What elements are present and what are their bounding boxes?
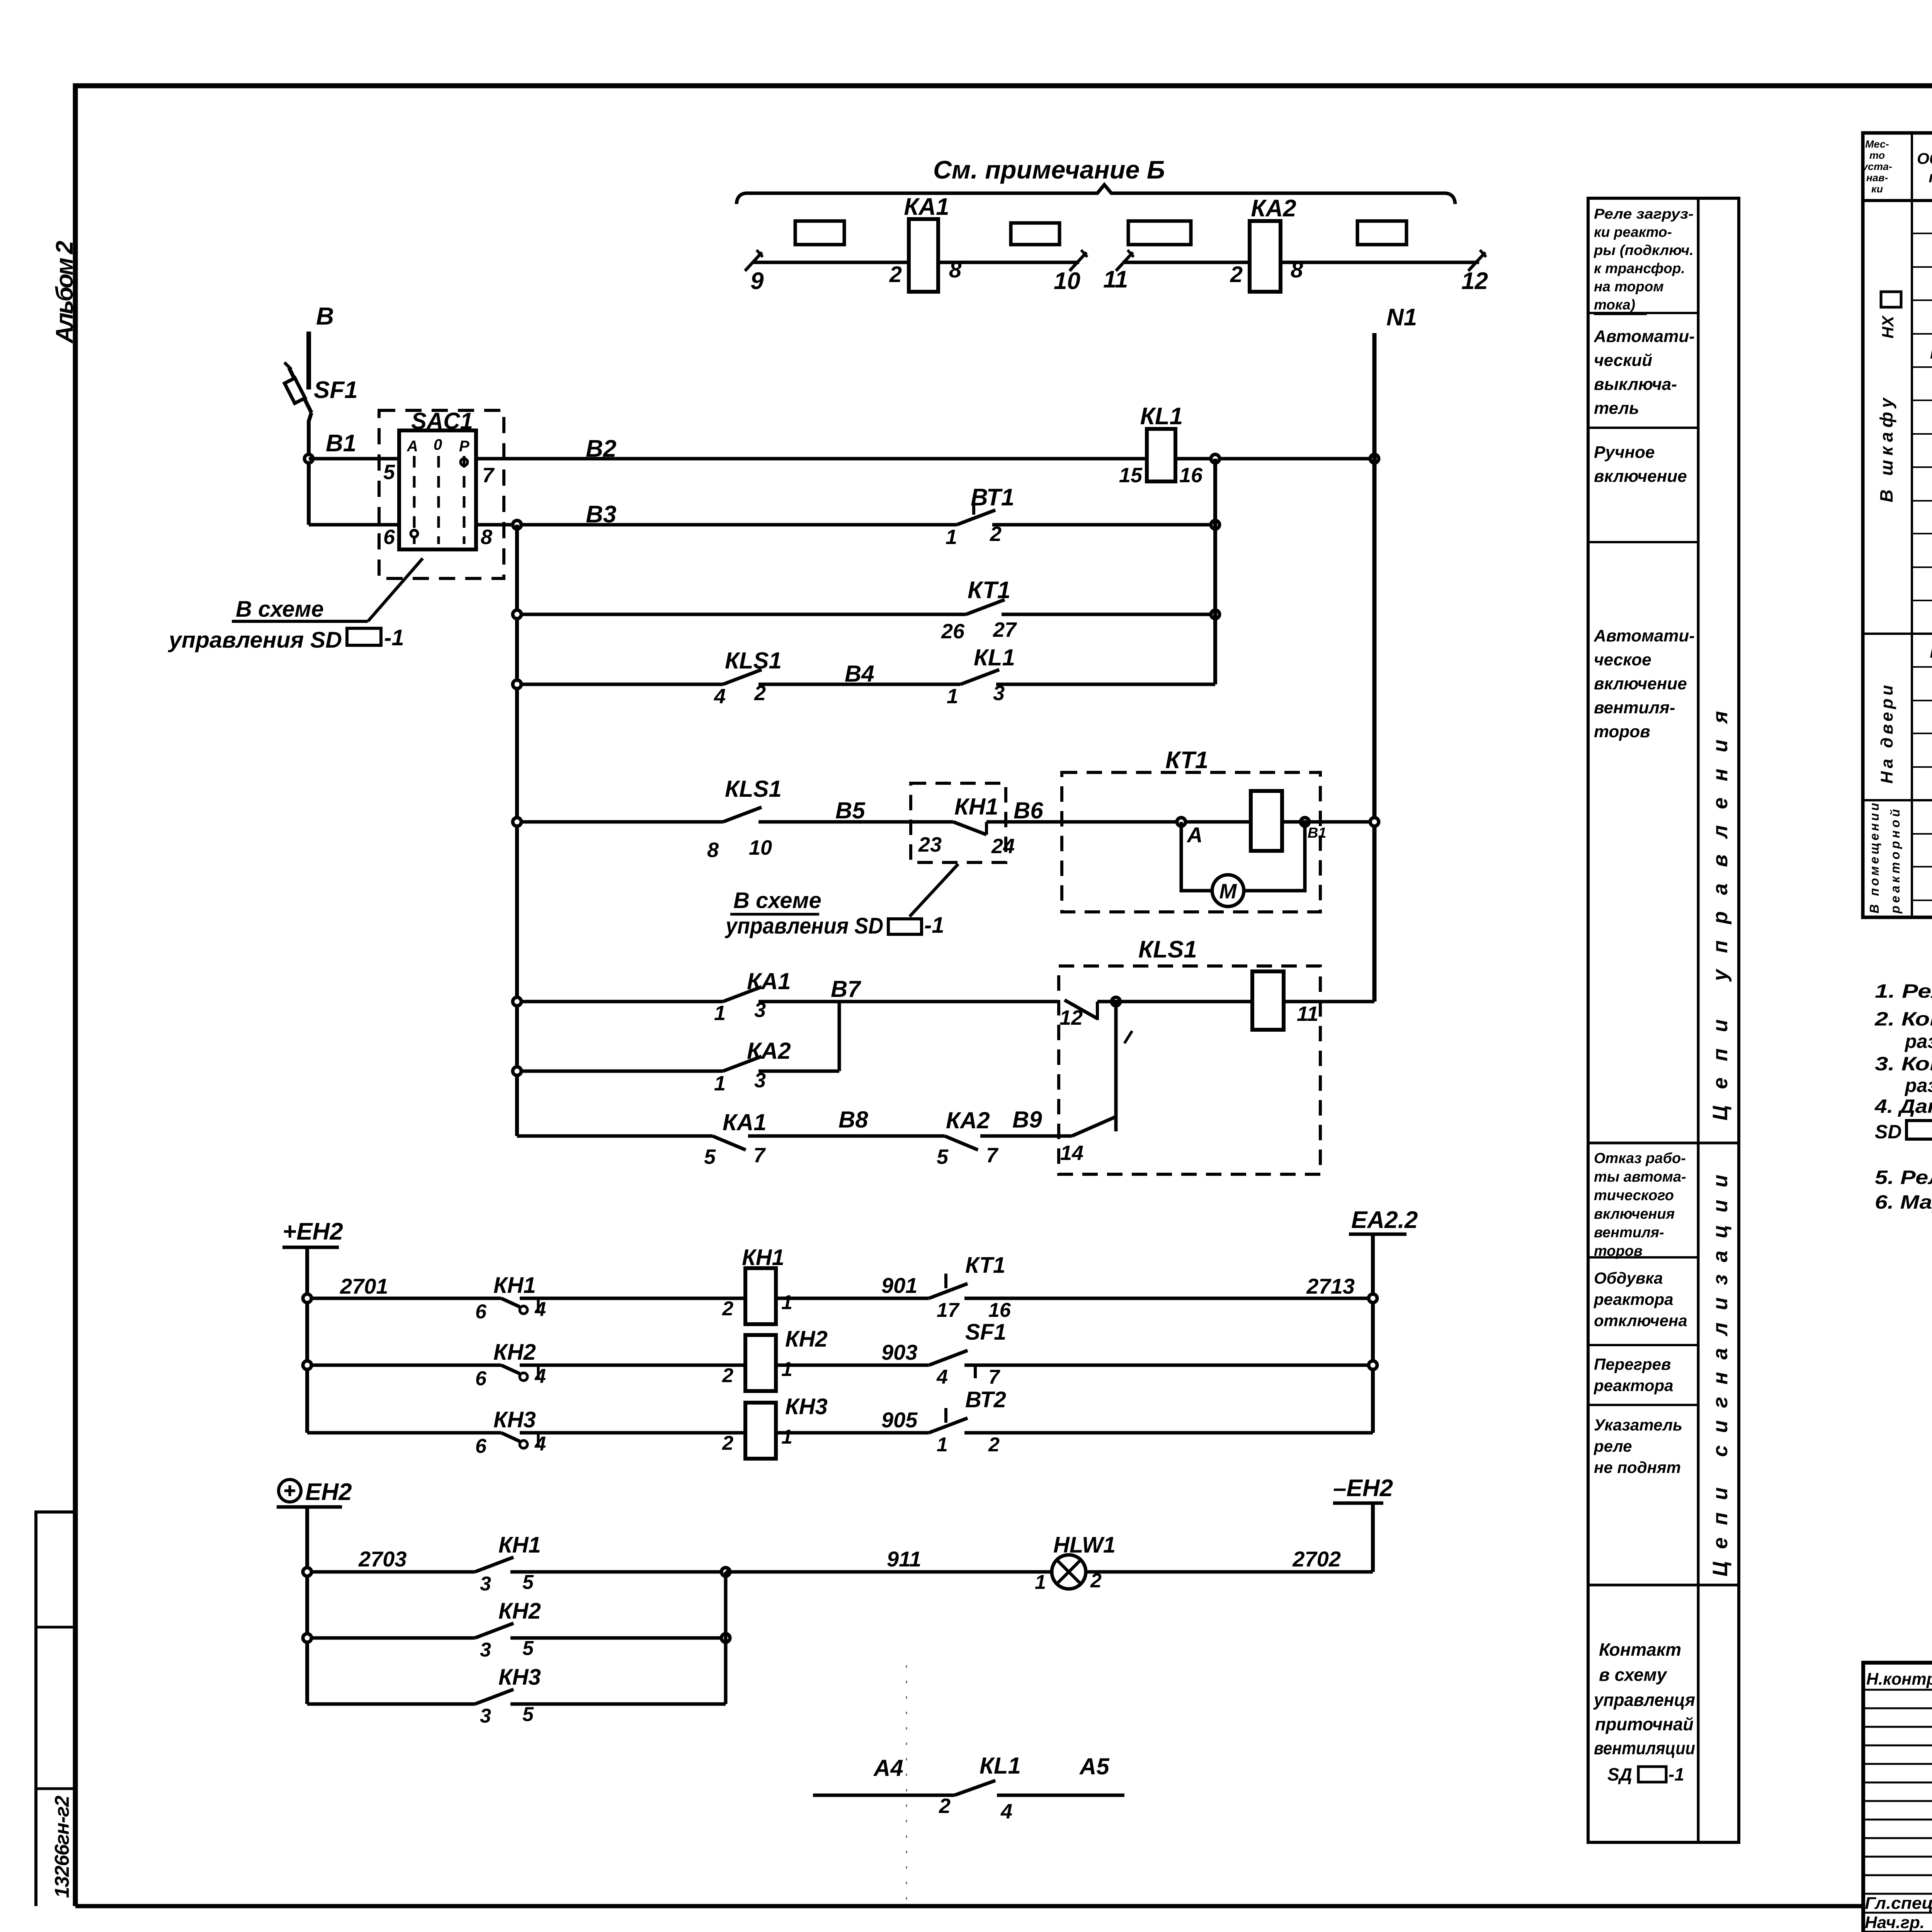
svg-text:В схеме: В схеме — [236, 597, 324, 622]
svg-text:КН1: КН1 — [493, 1273, 536, 1298]
svg-text:SD: SD — [1875, 1121, 1901, 1143]
underline in relay load cell — [1594, 313, 1647, 315]
svg-text:КLS1: КLS1 — [725, 648, 782, 673]
svg-text:тического: тического — [1594, 1187, 1674, 1204]
SAC1 position P — [459, 438, 469, 544]
svg-text:Контакт: Контакт — [1599, 1639, 1681, 1660]
svg-text:905: 905 — [881, 1408, 918, 1432]
svg-text:включение: включение — [1594, 467, 1687, 486]
node rung5 left — [513, 818, 521, 826]
svg-text:1: 1 — [714, 1002, 726, 1025]
CT circuit 1 wire 9-10 — [752, 261, 1079, 264]
svg-text:по схеме: по схеме — [1929, 169, 1932, 186]
title block outline — [1863, 1663, 1932, 1932]
contact KH2 3-5 — [307, 1599, 726, 1661]
svg-text:3. Контакты датчика ВТ2 должны: 3. Контакты датчика ВТ2 должны замыкатьс… — [1875, 1053, 1932, 1075]
svg-text:Ручное: Ручное — [1594, 443, 1655, 462]
svg-text:Цепи управления: Цепи управления — [1709, 711, 1732, 1121]
contact KLS1 8-10 — [517, 776, 782, 862]
svg-text:9: 9 — [750, 268, 764, 294]
bus -EH2 — [1333, 1475, 1393, 1572]
svg-text:4: 4 — [534, 1365, 546, 1388]
svg-text:Р: Р — [459, 438, 469, 455]
SAC1 position A — [406, 438, 418, 544]
svg-text:А5: А5 — [1079, 1753, 1110, 1779]
note brace См. примечание Б — [736, 155, 1455, 204]
SAC1 inner box — [399, 430, 476, 549]
svg-text:1: 1 — [714, 1072, 726, 1095]
svg-text:отключена: отключена — [1594, 1311, 1687, 1330]
circuit breaker SF1 — [284, 362, 358, 525]
svg-text:не поднят: не поднят — [1594, 1458, 1681, 1476]
svg-text:5: 5 — [522, 1571, 534, 1594]
svg-text:4: 4 — [936, 1366, 948, 1388]
terminal 9 — [745, 250, 764, 294]
label auto breaker cell — [1594, 327, 1695, 418]
svg-text:КТ1: КТ1 — [965, 1253, 1005, 1278]
node B1 — [304, 430, 399, 463]
wire B5 — [759, 798, 953, 823]
note 4 second line with SD boxes — [1875, 1121, 1932, 1143]
signal wire — [307, 1364, 501, 1367]
svg-text:2701: 2701 — [340, 1274, 388, 1298]
node B3 junction — [513, 520, 521, 529]
node rung3 right — [1211, 610, 1219, 619]
svg-text:2703: 2703 — [358, 1547, 407, 1571]
svg-text:5: 5 — [522, 1703, 534, 1726]
svg-text:НХ: НХ — [1879, 315, 1897, 338]
svg-text:ческий: ческий — [1594, 351, 1652, 370]
svg-text:SF1: SF1 — [965, 1320, 1006, 1345]
svg-text:10: 10 — [749, 836, 772, 859]
header Место установки — [1861, 138, 1892, 195]
svg-text:5: 5 — [383, 461, 395, 484]
svg-text:включения: включения — [1594, 1206, 1675, 1222]
svg-text:1: 1 — [781, 1291, 793, 1314]
svg-text:В1: В1 — [1308, 825, 1327, 841]
wire B4 — [759, 661, 961, 687]
contact KA2 5-7 — [937, 1107, 1072, 1168]
svg-text:КН2: КН2 — [493, 1340, 536, 1365]
svg-text:2: 2 — [722, 1432, 733, 1454]
row relay KA1 KA2 — [1930, 342, 1932, 363]
bus +EH2 lamp circuit — [277, 1479, 352, 1704]
svg-text:2: 2 — [722, 1364, 733, 1387]
svg-text:5: 5 — [704, 1145, 716, 1168]
contact KA1 5-7 — [517, 1109, 945, 1168]
node rung2 right — [1211, 520, 1219, 529]
svg-text:6: 6 — [475, 1301, 487, 1323]
svg-text:1: 1 — [947, 685, 958, 708]
svg-text:торов: торов — [1594, 1243, 1643, 1259]
node rung7 left — [513, 1067, 521, 1075]
notes block — [1874, 980, 1932, 1117]
node rung6 left — [513, 997, 521, 1006]
svg-text:6: 6 — [475, 1367, 487, 1390]
indicator relay coil КН3 2-1 — [722, 1394, 929, 1459]
label auto fan start cell — [1594, 626, 1695, 741]
function column table — [1588, 198, 1739, 1842]
svg-text:8: 8 — [707, 838, 719, 862]
CT winding box b — [1011, 223, 1060, 245]
motor M of KT1 — [1181, 822, 1305, 906]
svg-text:КН1: КН1 — [954, 794, 998, 820]
svg-text:4: 4 — [1000, 1800, 1012, 1823]
svg-text:КА2: КА2 — [946, 1107, 990, 1133]
svg-text:КН2: КН2 — [785, 1327, 828, 1352]
svg-text:15: 15 — [1119, 464, 1143, 487]
leader to KH1 note — [724, 864, 958, 939]
svg-text:КL1: КL1 — [974, 645, 1015, 670]
svg-text:размыкаться при t°=+30°С.: размыкаться при t°=+30°С. — [1904, 1031, 1932, 1052]
KT1 motor coil — [1251, 791, 1282, 851]
svg-text:8: 8 — [949, 257, 962, 282]
svg-text:КL1: КL1 — [1140, 403, 1183, 430]
svg-text:–ЕН2: –ЕН2 — [1333, 1475, 1393, 1502]
svg-text:2: 2 — [939, 1794, 951, 1818]
fold mark dashed — [906, 1665, 907, 1901]
svg-text:ты автома-: ты автома- — [1594, 1169, 1686, 1185]
svg-text:КА2: КА2 — [1251, 195, 1296, 222]
svg-text:выключа-: выключа- — [1594, 375, 1677, 394]
SAC1 position 0 — [434, 436, 442, 544]
contact KA1 1-3 — [517, 968, 791, 1025]
svg-text:N1: N1 — [1386, 304, 1417, 331]
svg-text:Мес-: Мес- — [1865, 138, 1889, 150]
svg-text:-1: -1 — [384, 625, 404, 650]
wire B3 row — [309, 501, 957, 528]
terminal 10 — [1054, 250, 1087, 294]
svg-text:А: А — [406, 438, 418, 455]
svg-text:реактора: реактора — [1594, 1290, 1673, 1308]
wire B6 — [986, 798, 1062, 823]
svg-text:7: 7 — [988, 1366, 1000, 1388]
indicator relay coil КН2 2-1 — [722, 1327, 929, 1391]
label auto fail cell — [1594, 1150, 1686, 1259]
svg-text:КА1: КА1 — [904, 194, 949, 220]
svg-text:к трансфор.: к трансфор. — [1594, 260, 1685, 276]
svg-text:ЕН2: ЕН2 — [305, 1479, 352, 1505]
CT circuit 2 wire 11-12 — [1122, 261, 1479, 264]
svg-text:Автомати-: Автомати- — [1594, 327, 1695, 346]
svg-text:ВТ1: ВТ1 — [971, 484, 1014, 511]
svg-text:приточнай: приточнай — [1595, 1714, 1694, 1734]
node s1 left — [303, 1294, 311, 1303]
svg-text:М: М — [1219, 880, 1237, 903]
section label НХ — [1879, 292, 1901, 338]
svg-text:реле: реле — [1594, 1437, 1632, 1455]
svg-text:7: 7 — [986, 1144, 999, 1167]
label relay load cell — [1594, 206, 1694, 313]
leader to SAC1 note — [168, 558, 423, 653]
stamp row Chert.kon — [1864, 1932, 1932, 1932]
svg-text:3: 3 — [480, 1705, 491, 1727]
svg-text:0: 0 — [434, 436, 442, 453]
selector switch SAC1 dashed box — [379, 408, 504, 578]
svg-text:24: 24 — [991, 835, 1015, 858]
lamp HLW1 — [1035, 1532, 1373, 1594]
svg-text:В9: В9 — [1012, 1107, 1042, 1133]
svg-text:Цепи сигнализации: Цепи сигнализации — [1709, 1175, 1732, 1577]
lamp branch vertical — [724, 1572, 728, 1704]
svg-text:Перегрев: Перегрев — [1594, 1355, 1671, 1373]
svg-text:SД: SД — [1607, 1764, 1632, 1784]
svg-text:Реле загруз-: Реле загруз- — [1594, 206, 1694, 222]
svg-text:Нач.гр.: Нач.гр. — [1865, 1913, 1925, 1932]
signal wire 2703 — [307, 1547, 475, 1572]
svg-text:26: 26 — [941, 620, 965, 643]
svg-text:управленця: управленця — [1593, 1690, 1695, 1710]
contact KL1 1-3 — [947, 645, 1215, 708]
svg-text:КА1: КА1 — [723, 1109, 767, 1135]
svg-text:3: 3 — [480, 1639, 491, 1661]
svg-text:нав-: нав- — [1866, 172, 1888, 184]
svg-text:16: 16 — [1179, 464, 1203, 487]
latch contact KLS1 12 — [1060, 1000, 1097, 1029]
svg-text:торов: торов — [1594, 722, 1650, 741]
stamp row N.kontr — [1866, 1670, 1932, 1689]
svg-text:тель: тель — [1594, 399, 1639, 418]
svg-text:вентиля-: вентиля- — [1594, 1225, 1664, 1241]
CT winding box a — [795, 221, 844, 245]
svg-text:911: 911 — [887, 1547, 921, 1571]
svg-text:1: 1 — [946, 526, 957, 549]
label overheat cell — [1594, 1355, 1673, 1395]
svg-text:КН1...КН3: КН1...КН3 — [1930, 643, 1932, 662]
stamp row Nach.gr — [1865, 1913, 1932, 1932]
svg-text:2: 2 — [889, 262, 902, 287]
bus EA2.2 — [1349, 1207, 1418, 1433]
svg-text:ЕА2.2: ЕА2.2 — [1351, 1207, 1418, 1233]
indicator contact КН3 6-4 — [475, 1407, 745, 1458]
relay coil KA2 — [1250, 195, 1296, 292]
node N1 top — [1370, 304, 1417, 1002]
node lamp left — [303, 1568, 311, 1576]
left margin column — [36, 1512, 75, 1906]
node s2 left — [303, 1361, 311, 1369]
svg-text:11: 11 — [1103, 266, 1128, 293]
svg-text:Н.контр: Н.контр — [1866, 1670, 1932, 1689]
row indicator relays KH1-KH3 — [1930, 639, 1932, 664]
svg-text:6: 6 — [383, 526, 395, 549]
svg-text:Обозначение: Обозначение — [1917, 150, 1932, 167]
svg-text:7: 7 — [753, 1144, 766, 1167]
svg-text:на тором: на тором — [1594, 279, 1664, 294]
contact KL1 2-4 to vent control — [813, 1753, 1124, 1823]
node s1 right — [1369, 1294, 1377, 1303]
svg-text:КLS1: КLS1 — [1138, 936, 1197, 963]
svg-text:SF1: SF1 — [314, 377, 358, 403]
svg-text:14: 14 — [1060, 1141, 1083, 1165]
svg-text:КН3: КН3 — [498, 1665, 541, 1690]
svg-text:17: 17 — [937, 1299, 960, 1321]
node latch junction — [1097, 997, 1252, 1006]
svg-text:27: 27 — [993, 618, 1017, 641]
node on bus RB rung1 — [1211, 454, 1219, 463]
wire B7 — [759, 976, 1059, 1002]
svg-text:4: 4 — [534, 1433, 546, 1455]
stamp table grid — [1863, 1663, 1932, 1932]
svg-text:В4: В4 — [845, 661, 874, 687]
contact KLS1 4-2 — [517, 648, 782, 708]
svg-text:12: 12 — [1461, 268, 1488, 294]
svg-text:НLW1: НLW1 — [1053, 1532, 1116, 1558]
svg-text:1: 1 — [1035, 1571, 1046, 1594]
svg-text:2713: 2713 — [1306, 1274, 1355, 1298]
svg-text:6. Марки цепей проставляются: 6. Марки цепей проставляются при привязк… — [1875, 1191, 1932, 1213]
node B feeder — [309, 302, 334, 389]
branch to KA2 row — [838, 1002, 841, 1071]
svg-text:А: А — [1186, 823, 1202, 847]
svg-text:1. Реле тока КА1, КА2 настраив: 1. Реле тока КА1, КА2 настраиваются на 0… — [1875, 980, 1932, 1002]
terminal 12 — [1461, 250, 1488, 294]
svg-text:КLS1: КLS1 — [725, 776, 782, 802]
node A in KT1 box — [1062, 818, 1251, 847]
right inner bus — [1213, 459, 1217, 684]
svg-text:2: 2 — [988, 1434, 1000, 1456]
contact KH3 3-5 — [307, 1665, 726, 1727]
node kh2 left — [303, 1634, 311, 1642]
svg-text:реактора: реактора — [1594, 1376, 1673, 1395]
node s2 right — [1369, 1361, 1377, 1369]
svg-text:Автомати-: Автомати- — [1594, 626, 1695, 645]
svg-text:КН3: КН3 — [785, 1394, 828, 1419]
svg-text:2: 2 — [722, 1298, 733, 1320]
svg-text:ки реакто-: ки реакто- — [1594, 224, 1672, 240]
wire B2 — [476, 435, 1147, 462]
svg-text:5. Реле тока КА2 используются: 5. Реле тока КА2 используются только для… — [1875, 1167, 1932, 1188]
svg-text:В2: В2 — [586, 435, 616, 462]
svg-text:3: 3 — [480, 1573, 491, 1595]
latch contact KLS1 14 — [1060, 1117, 1116, 1165]
svg-text:16: 16 — [988, 1299, 1011, 1321]
svg-text:КН1: КН1 — [498, 1532, 541, 1558]
signal wire — [307, 1431, 501, 1435]
svg-text:В1: В1 — [326, 430, 356, 457]
svg-text:5: 5 — [937, 1145, 949, 1168]
svg-text:13266гн-г2: 13266гн-г2 — [51, 1796, 73, 1898]
contact KH1 3-5 — [475, 1532, 726, 1595]
svg-text:901: 901 — [881, 1273, 917, 1298]
svg-text:23: 23 — [918, 833, 942, 856]
svg-text:ры (подключ.: ры (подключ. — [1594, 242, 1694, 258]
row temp sensors BT1 BT2 — [1932, 808, 1932, 863]
svg-text:2: 2 — [1230, 262, 1243, 287]
label blow off cell — [1594, 1269, 1687, 1330]
svg-text:КН2: КН2 — [498, 1599, 541, 1624]
svg-text:Отказ рабо-: Отказ рабо- — [1594, 1150, 1686, 1167]
bus +EH2 — [282, 1218, 343, 1433]
svg-text:12: 12 — [1060, 1006, 1083, 1029]
svg-text:ки: ки — [1871, 183, 1883, 195]
node rung4 left — [513, 680, 521, 689]
svg-text:2. Контакты датчика ВТ1 должны: 2. Контакты датчика ВТ1 должны замыкатьс… — [1874, 1008, 1932, 1030]
svg-text:-1: -1 — [1668, 1764, 1684, 1784]
svg-text:903: 903 — [881, 1340, 917, 1364]
label contact to vent cell — [1593, 1639, 1695, 1784]
svg-text:ВТ2: ВТ2 — [965, 1387, 1006, 1412]
contact SF1 — [929, 1320, 1373, 1388]
node B1 in KT1 box — [1282, 818, 1374, 841]
indicator relay coil КН1 2-1 — [722, 1245, 929, 1324]
node kh2 junction — [721, 1634, 730, 1642]
svg-text:В7: В7 — [831, 976, 861, 1002]
svg-text:КL1: КL1 — [980, 1753, 1021, 1779]
svg-text:в схему: в схему — [1599, 1665, 1668, 1685]
node rung3 left — [513, 610, 521, 619]
left bus LB2 — [515, 525, 519, 1136]
svg-text:См. примечание Б: См. примечание Б — [933, 155, 1165, 184]
svg-text:то: то — [1869, 150, 1885, 161]
svg-text:Гл.спец.: Гл.спец. — [1865, 1894, 1932, 1913]
svg-text:управления SD: управления SD — [724, 913, 883, 939]
svg-text:В: В — [316, 302, 334, 330]
intermediate relay KLS1 dashed box — [1059, 936, 1320, 1174]
relay coil KL1 15-16 — [1119, 403, 1374, 487]
svg-text:6: 6 — [475, 1435, 487, 1458]
svg-text:1: 1 — [781, 1358, 793, 1381]
relay coil KA1 — [904, 194, 949, 292]
svg-text:Альбом 2: Альбом 2 — [51, 241, 78, 344]
svg-text:4: 4 — [714, 685, 726, 708]
svg-text:+ЕН2: +ЕН2 — [282, 1218, 343, 1245]
svg-text:8: 8 — [1291, 257, 1303, 282]
svg-text:5: 5 — [522, 1637, 534, 1660]
signal wire 2701 — [307, 1274, 501, 1298]
svg-text:10: 10 — [1054, 268, 1080, 294]
svg-text:7: 7 — [482, 464, 495, 487]
indicator contact КН1 6-4 — [475, 1273, 745, 1323]
node rung5 N1 — [1370, 818, 1379, 826]
svg-text:В6: В6 — [1014, 798, 1043, 823]
svg-text:размыкаться при t°=+40°С.: размыкаться при t°=+40°С. — [1904, 1075, 1932, 1096]
svg-text:тока): тока) — [1594, 297, 1635, 313]
svg-text:1: 1 — [937, 1434, 948, 1456]
svg-text:В схеме: В схеме — [733, 888, 821, 913]
contact KA2 1-3 — [517, 1038, 839, 1095]
notes 5 and 6 — [1875, 1167, 1932, 1213]
header Обозначение по схеме — [1917, 150, 1932, 186]
KLS1 coil 11 — [1252, 971, 1374, 1030]
label flag cell — [1594, 1416, 1682, 1476]
indicator contact КН2 6-4 — [475, 1340, 745, 1390]
svg-text:В8: В8 — [838, 1107, 868, 1133]
stamp row Gl.spets — [1865, 1888, 1932, 1913]
latch vertical link — [1116, 1002, 1132, 1131]
svg-text:уста-: уста- — [1861, 161, 1892, 172]
svg-text:4: 4 — [534, 1298, 546, 1321]
section label В помещении реакторной — [1867, 803, 1902, 914]
svg-text:управления SD: управления SD — [168, 628, 342, 653]
time relay KT1 dashed box — [1062, 747, 1320, 912]
svg-text:-1: -1 — [924, 913, 944, 938]
terminal 11 — [1103, 250, 1134, 293]
time relay contact KT1 26-27 — [517, 577, 1215, 643]
contact ВТ2 — [929, 1387, 1373, 1456]
svg-text:КН3: КН3 — [493, 1407, 536, 1432]
svg-text:вентиля-: вентиля- — [1594, 698, 1675, 717]
node lamp junction — [721, 1568, 1052, 1576]
svg-text:Указатель: Указатель — [1594, 1416, 1682, 1434]
svg-text:В5: В5 — [835, 798, 866, 823]
CT winding box d — [1357, 221, 1406, 245]
appliance table grid — [1863, 133, 1932, 917]
svg-text:2702: 2702 — [1292, 1547, 1341, 1571]
svg-text:КТ1: КТ1 — [1165, 747, 1208, 774]
svg-text:включение: включение — [1594, 674, 1687, 693]
label manual start cell — [1594, 443, 1687, 486]
temperature contact BT1 1-2 — [946, 484, 1215, 549]
